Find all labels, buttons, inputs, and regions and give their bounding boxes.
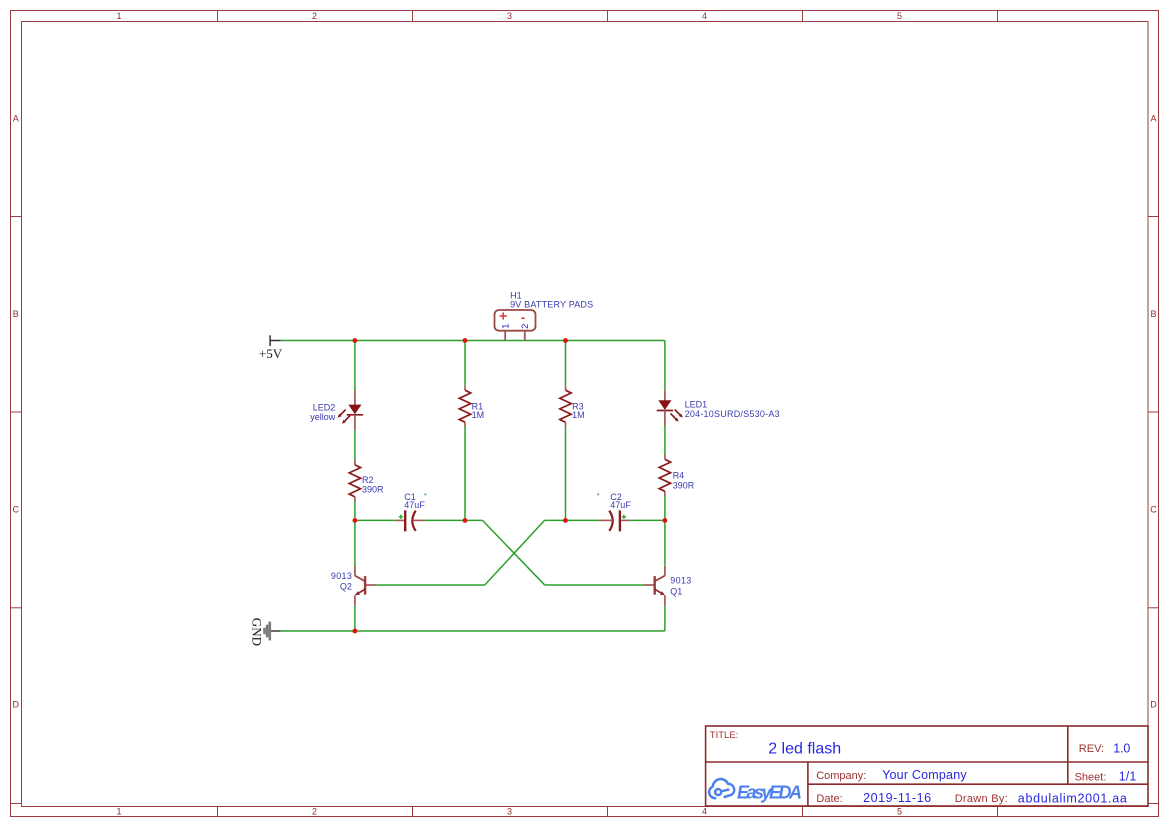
svg-text:2 led flash: 2 led flash xyxy=(768,740,841,757)
svg-text:1: 1 xyxy=(116,807,121,817)
svg-text:5: 5 xyxy=(897,807,902,817)
svg-text:47uF: 47uF xyxy=(404,500,425,510)
svg-text:5: 5 xyxy=(897,11,902,21)
svg-text:TITLE:: TITLE: xyxy=(710,730,739,741)
svg-text:4: 4 xyxy=(702,807,707,817)
svg-text:EasyEDA: EasyEDA xyxy=(737,783,802,803)
svg-text:REV:: REV: xyxy=(1079,743,1104,755)
svg-text:2: 2 xyxy=(312,11,317,21)
svg-text:3: 3 xyxy=(507,807,512,817)
svg-text:Q1: Q1 xyxy=(670,586,682,596)
svg-text:+5V: +5V xyxy=(259,346,283,361)
svg-text:D: D xyxy=(13,700,20,710)
svg-text:abdulalim2001.aa: abdulalim2001.aa xyxy=(1018,792,1127,806)
svg-text:2019-11-16: 2019-11-16 xyxy=(863,791,931,805)
svg-text:C: C xyxy=(13,505,20,515)
svg-text:3: 3 xyxy=(507,11,512,21)
svg-text:C: C xyxy=(1150,505,1157,515)
svg-text:Q2: Q2 xyxy=(340,582,352,592)
svg-text:4: 4 xyxy=(702,11,707,21)
svg-text:A: A xyxy=(1150,114,1156,124)
svg-text:47uF: 47uF xyxy=(610,500,631,510)
svg-text:2: 2 xyxy=(520,324,531,329)
svg-text:A: A xyxy=(13,114,19,124)
svg-text:1M: 1M xyxy=(472,410,485,420)
svg-text:GND: GND xyxy=(250,618,265,646)
svg-text:yellow: yellow xyxy=(310,412,336,422)
svg-text:Date:: Date: xyxy=(816,793,842,805)
svg-text:1: 1 xyxy=(116,11,121,21)
svg-text:B: B xyxy=(1150,309,1156,319)
svg-text:Your Company: Your Company xyxy=(882,768,967,782)
svg-text:390R: 390R xyxy=(362,484,384,494)
svg-text:Sheet:: Sheet: xyxy=(1075,772,1107,784)
svg-text:9V BATTERY PADS: 9V BATTERY PADS xyxy=(510,300,593,310)
svg-text:D: D xyxy=(1150,700,1157,710)
svg-text:9013: 9013 xyxy=(331,571,352,581)
svg-text:1/1: 1/1 xyxy=(1119,770,1137,784)
svg-text:Drawn By:: Drawn By: xyxy=(955,793,1008,805)
svg-text:B: B xyxy=(13,309,19,319)
svg-text:Company:: Company: xyxy=(816,770,866,782)
svg-text:1M: 1M xyxy=(572,410,585,420)
svg-text:9013: 9013 xyxy=(670,575,691,585)
svg-text:2: 2 xyxy=(312,807,317,817)
svg-text:204-10SURD/S530-A3: 204-10SURD/S530-A3 xyxy=(685,409,780,419)
svg-text:R4: R4 xyxy=(673,471,685,481)
svg-text:1.0: 1.0 xyxy=(1113,742,1130,756)
svg-text:1: 1 xyxy=(500,324,511,329)
svg-text:390R: 390R xyxy=(673,480,695,490)
